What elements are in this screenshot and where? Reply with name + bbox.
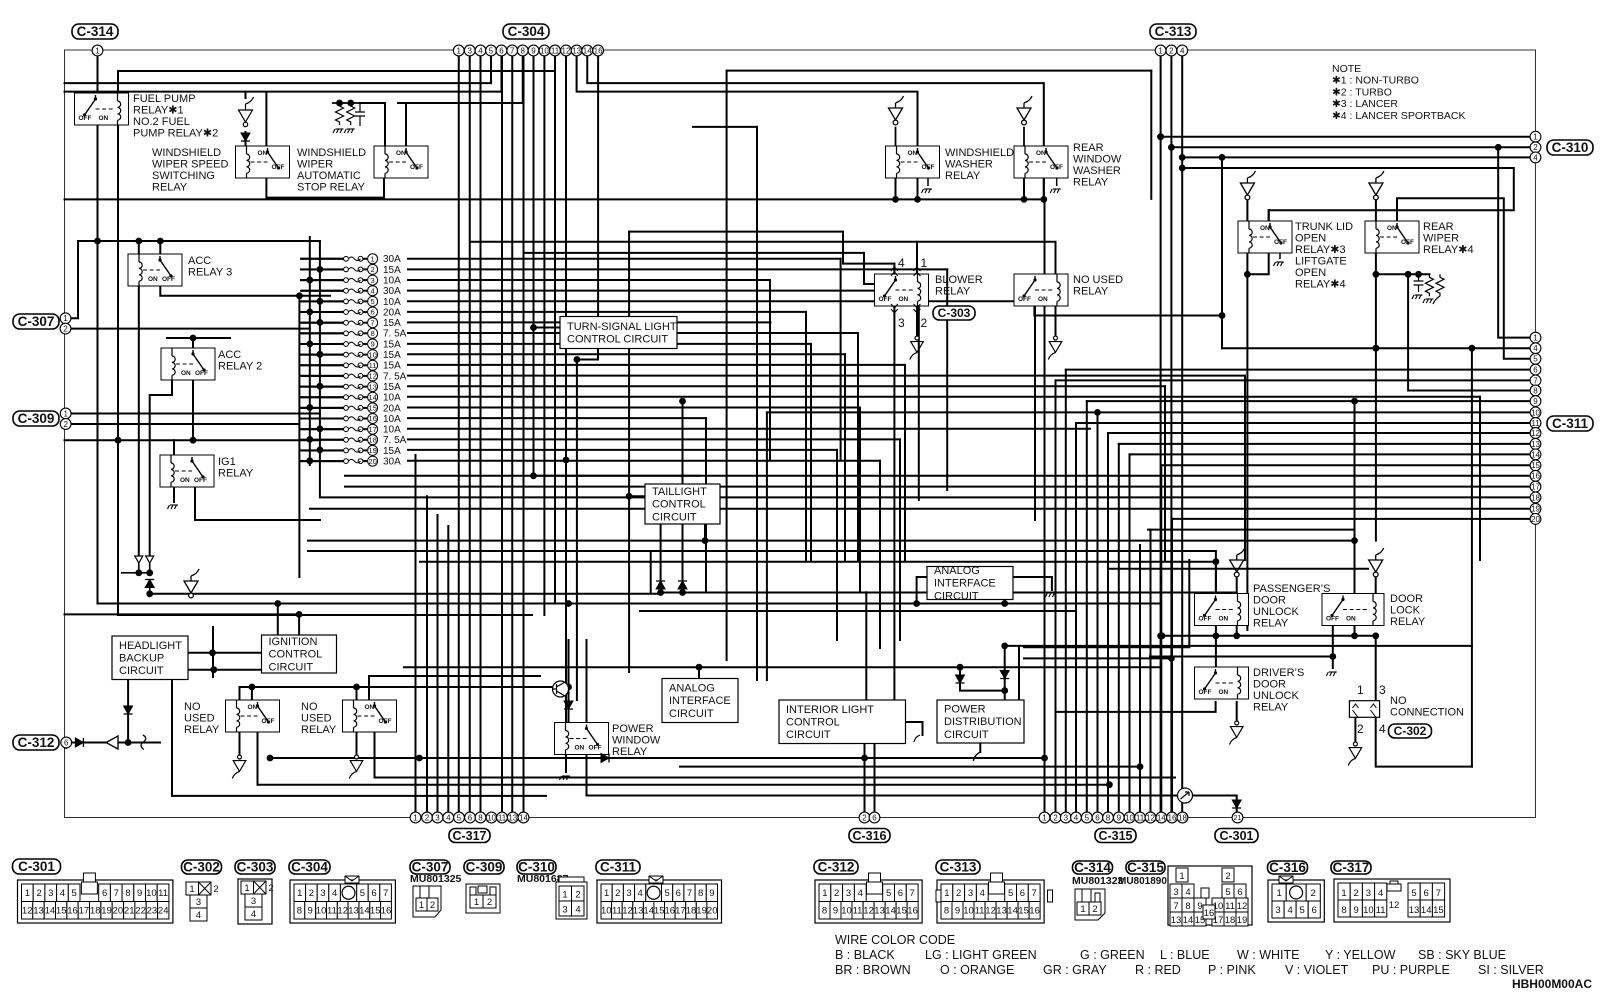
svg-text:5: 5: [1300, 905, 1305, 916]
svg-text:OFF: OFF: [1274, 239, 1287, 246]
svg-text:13: 13: [874, 906, 885, 917]
svg-text:20: 20: [707, 906, 718, 917]
svg-text:12: 12: [22, 906, 33, 917]
svg-text:11: 11: [853, 906, 863, 917]
wire: [946, 269, 948, 490]
connector label C-307: [410, 860, 450, 875]
wire: [1075, 423, 1077, 812]
svg-text:ON: ON: [1387, 225, 1397, 232]
svg-text:11: 11: [1376, 905, 1386, 916]
junction: [267, 755, 274, 762]
junction: [679, 398, 686, 405]
junction: [1040, 196, 1047, 203]
svg-text:12: 12: [1237, 901, 1248, 912]
svg-text:OFF: OFF: [589, 745, 602, 752]
wire: [302, 418, 344, 420]
svg-text:18: 18: [90, 906, 101, 917]
wire: [1107, 433, 1109, 812]
wire: [899, 439, 901, 640]
svg-text:C-309: C-309: [466, 860, 503, 875]
wire: [769, 280, 771, 460]
svg-text:10: 10: [963, 906, 974, 917]
fuse 16 : 10A: [300, 414, 401, 425]
svg-text:1: 1: [1080, 904, 1085, 915]
junction: [1168, 655, 1175, 662]
svg-text:15: 15: [56, 906, 67, 917]
connector label C-309: [13, 411, 59, 426]
svg-text:19: 19: [101, 906, 112, 917]
relay driver door unlock relay: [1195, 667, 1249, 699]
svg-text:3: 3: [1366, 888, 1371, 899]
junction: [306, 457, 313, 464]
chassis ground: [1045, 593, 1056, 597]
svg-text:1: 1: [1158, 46, 1163, 55]
svg-text:ON: ON: [575, 745, 585, 752]
svg-text:MU801323: MU801323: [1072, 875, 1124, 887]
junction: [1351, 632, 1358, 639]
svg-text:OFF: OFF: [922, 164, 935, 171]
wire: [1354, 627, 1356, 636]
svg-text:8: 8: [822, 906, 827, 917]
svg-text:6: 6: [1312, 905, 1317, 916]
svg-text:3: 3: [320, 888, 325, 899]
wire: [1004, 598, 1006, 604]
junction: [1159, 632, 1166, 639]
wire: [1130, 453, 1531, 455]
svg-text:2: 2: [1169, 46, 1174, 55]
connector label C-302: [1389, 724, 1432, 738]
wire: [906, 722, 923, 735]
svg-text:3: 3: [1173, 887, 1178, 898]
wire: [1139, 545, 1141, 812]
svg-text:4: 4: [251, 909, 256, 920]
wire: [470, 242, 1056, 274]
svg-text:1: 1: [189, 884, 194, 895]
wire: [150, 593, 661, 595]
svg-text:1: 1: [1042, 813, 1047, 822]
junction: [317, 447, 324, 454]
svg-text:11: 11: [498, 813, 507, 822]
junction: [1233, 632, 1240, 639]
wire: [408, 364, 905, 366]
connector pinout C-315: [1168, 866, 1252, 926]
svg-text:11: 11: [327, 906, 337, 917]
C-312 pin 6: [61, 737, 72, 748]
svg-text:14: 14: [1183, 915, 1194, 926]
svg-text:4: 4: [1379, 722, 1386, 736]
wire: [298, 296, 300, 577]
svg-text:OFF: OFF: [194, 477, 207, 484]
wire: [71, 328, 310, 330]
svg-text:10A: 10A: [383, 414, 401, 425]
interior light control circuit box: [779, 700, 906, 744]
svg-text:ON: ON: [908, 150, 918, 157]
wire: [258, 732, 1110, 785]
svg-text:13: 13: [368, 382, 376, 391]
fuse 7 : 15A: [300, 318, 401, 329]
connector pinout C-314: [1075, 889, 1105, 920]
wire: [71, 423, 299, 425]
connector label C-304: [503, 24, 549, 39]
junction: [530, 472, 537, 479]
svg-text:12: 12: [985, 906, 996, 917]
fuse 18 : 7. 5A: [300, 435, 407, 446]
relay IG1 relay: [160, 455, 214, 487]
wire: [766, 412, 768, 680]
svg-text:9: 9: [1354, 905, 1359, 916]
wire: [1055, 380, 1057, 812]
ground: [1230, 721, 1244, 745]
svg-text:20: 20: [113, 906, 124, 917]
connector pinout C-316: [1268, 880, 1324, 922]
junction: [1094, 409, 1101, 416]
connector label C-313: [1150, 24, 1196, 39]
wire: [1044, 199, 1046, 812]
wire: [408, 343, 811, 345]
wire: [360, 103, 385, 146]
wire: [767, 411, 1531, 413]
svg-text:2: 2: [63, 420, 68, 429]
svg-text:16: 16: [1204, 908, 1215, 919]
svg-text:17: 17: [1531, 483, 1540, 492]
wire: [173, 440, 175, 455]
wire: [1056, 379, 1531, 381]
svg-text:8: 8: [944, 906, 949, 917]
svg-text:3: 3: [898, 316, 905, 330]
svg-text:C-301: C-301: [1219, 829, 1253, 843]
junction: [1219, 312, 1226, 319]
svg-text:7. 5A: 7. 5A: [383, 371, 407, 382]
wire: [1376, 717, 1472, 766]
wire: [501, 56, 503, 812]
svg-text:TURN-SIGNAL LIGHTCONTROL CIRCU: TURN-SIGNAL LIGHTCONTROL CIRCUIT: [567, 321, 677, 346]
svg-text:16: 16: [1168, 813, 1177, 822]
chassis ground: [560, 776, 571, 780]
chassis ground: [1423, 299, 1434, 303]
connector label C-316: [1268, 860, 1308, 875]
junction: [94, 238, 101, 245]
wire: [629, 495, 645, 497]
svg-text:10: 10: [487, 813, 496, 822]
svg-text:8: 8: [297, 906, 302, 917]
junction: [1001, 600, 1008, 607]
wire: [836, 450, 838, 640]
relay rear wiper relay: [1365, 221, 1419, 253]
wire: [661, 592, 1237, 594]
svg-text:5: 5: [72, 888, 77, 899]
wire: [682, 524, 684, 584]
svg-text:C-302: C-302: [1394, 724, 1427, 738]
wire: [71, 413, 320, 415]
svg-text:10: 10: [1363, 905, 1374, 916]
svg-text:C-307: C-307: [18, 314, 55, 329]
wire: [97, 56, 99, 99]
wire: [408, 417, 706, 419]
connector label C-304: [289, 860, 330, 875]
wire: [523, 56, 525, 812]
svg-text:9: 9: [1117, 813, 1122, 822]
svg-text:4: 4: [980, 888, 985, 899]
svg-text:OFF: OFF: [162, 276, 175, 283]
svg-text:WIRE COLOR CODE: WIRE COLOR CODE: [835, 933, 955, 947]
diode: [678, 581, 687, 589]
svg-text:C-316: C-316: [1269, 860, 1306, 875]
svg-text:19: 19: [1237, 915, 1248, 926]
wire: [879, 461, 881, 648]
svg-text:C-314: C-314: [77, 24, 114, 39]
wire: [408, 279, 770, 281]
relay power window relay: [555, 723, 609, 755]
svg-text:15: 15: [654, 906, 665, 917]
svg-text:8: 8: [521, 46, 526, 55]
svg-text:11: 11: [975, 906, 985, 917]
svg-text:C-302: C-302: [183, 860, 220, 875]
svg-text:16: 16: [907, 906, 918, 917]
wire: [918, 291, 920, 500]
wire: [917, 178, 919, 199]
wire: [1236, 702, 1238, 722]
svg-text:12: 12: [337, 906, 348, 917]
svg-text:1: 1: [944, 888, 949, 899]
wire: [1354, 717, 1356, 742]
svg-text:1: 1: [1276, 888, 1281, 899]
svg-text:10A: 10A: [383, 297, 401, 308]
connector label C-315: [1095, 829, 1136, 843]
connector pinout C-307: [413, 886, 441, 917]
relay blower relay: [875, 274, 929, 306]
wire: [1086, 401, 1088, 812]
wire: [1066, 369, 1531, 371]
wire: [1118, 444, 1120, 812]
svg-text:11: 11: [612, 906, 622, 917]
wire: [1148, 529, 1355, 531]
svg-text:10A: 10A: [383, 425, 401, 436]
connector pinout C-303: [238, 879, 274, 924]
connector pinout C-310: [556, 877, 587, 919]
svg-text:OFF: OFF: [1199, 689, 1212, 696]
wire: [1246, 198, 1248, 222]
svg-text:9: 9: [833, 906, 838, 917]
svg-text:C-311: C-311: [1552, 416, 1589, 431]
wire: [408, 311, 806, 313]
svg-text:1: 1: [474, 897, 479, 908]
svg-text:2: 2: [1357, 722, 1364, 736]
wire: [1024, 560, 1189, 647]
chassis ground: [344, 129, 355, 133]
junction: [913, 600, 920, 607]
C-317 pins: [410, 812, 421, 823]
wire: [1171, 519, 1173, 812]
svg-text:1: 1: [1179, 871, 1184, 882]
svg-text:2: 2: [1053, 813, 1058, 822]
svg-text:6: 6: [1237, 887, 1242, 898]
svg-text:11: 11: [1225, 901, 1235, 912]
relay door lock relay: [1322, 594, 1384, 626]
svg-text:13: 13: [508, 813, 517, 822]
svg-text:6: 6: [1020, 888, 1025, 899]
svg-text:7: 7: [1173, 901, 1178, 912]
svg-text:C-313: C-313: [940, 860, 977, 875]
svg-text:4: 4: [478, 46, 483, 55]
wire: [568, 709, 570, 723]
junction: [1021, 196, 1028, 203]
wire: [212, 627, 214, 677]
wire: [188, 669, 262, 671]
wire: [640, 610, 1076, 612]
wire: [369, 676, 540, 700]
relay rear window washer relay: [1014, 146, 1068, 178]
wire: [1215, 636, 1217, 667]
connector label C-310: [517, 860, 556, 875]
svg-text:OFF: OFF: [1401, 239, 1414, 246]
svg-text:3: 3: [1064, 813, 1069, 822]
svg-text:3: 3: [1275, 905, 1280, 916]
wire: [1397, 198, 1531, 358]
wire: [1173, 518, 1531, 520]
wire: [1182, 168, 1514, 221]
svg-text:OFF: OFF: [1018, 296, 1031, 303]
svg-text:7: 7: [1032, 888, 1037, 899]
wire: [302, 343, 344, 345]
connector label C-302: [182, 860, 222, 875]
svg-text:7: 7: [1533, 376, 1538, 385]
wire: [705, 418, 707, 592]
svg-text:5: 5: [1008, 888, 1013, 899]
wire: [1018, 646, 1020, 701]
wire: [893, 264, 895, 274]
svg-text:13: 13: [1531, 440, 1540, 449]
wire: [408, 332, 858, 334]
wire: [188, 652, 262, 654]
svg-text:21: 21: [124, 906, 135, 917]
ground: [1048, 336, 1062, 360]
svg-text:TRUNK LIDOPENRELAY✱3LIFTGATEOP: TRUNK LIDOPENRELAY✱3LIFTGATEOPENRELAY✱4: [1295, 221, 1353, 291]
wire: [1244, 376, 1246, 560]
svg-text:18: 18: [686, 906, 697, 917]
relay no used relay (left): [226, 700, 280, 732]
svg-text:15: 15: [368, 404, 376, 413]
svg-text:ON: ON: [99, 115, 109, 122]
svg-text:6: 6: [468, 813, 473, 822]
svg-text:3: 3: [1379, 683, 1386, 697]
wire: [420, 562, 1216, 594]
svg-text:OFF: OFF: [1050, 164, 1063, 171]
wire: [408, 460, 880, 462]
svg-text:9: 9: [137, 888, 142, 899]
wire: [660, 524, 662, 584]
svg-text:6: 6: [64, 738, 69, 747]
svg-text:2: 2: [309, 888, 314, 899]
wire: [239, 732, 241, 757]
svg-text:1: 1: [370, 255, 374, 264]
branch symbol: [1240, 171, 1255, 200]
svg-text:10: 10: [1125, 813, 1134, 822]
wire: [511, 56, 513, 812]
svg-text:15A: 15A: [383, 350, 401, 361]
wire: [1408, 274, 1530, 390]
wire: [959, 667, 961, 675]
wire: [319, 241, 321, 497]
wire: [1236, 575, 1238, 594]
svg-text:1: 1: [1533, 133, 1538, 142]
connector label C-312: [814, 860, 858, 875]
C-315 pins: [1039, 812, 1050, 823]
wire: [302, 439, 344, 441]
wire: [1171, 146, 1530, 148]
wire: [302, 300, 344, 302]
svg-text:8: 8: [478, 813, 483, 822]
connector label C-317: [1331, 860, 1371, 875]
connector label C-307: [13, 314, 59, 329]
wire: [302, 428, 344, 430]
junction: [306, 309, 313, 316]
junction: [157, 238, 164, 245]
fuse 14 : 10A: [300, 392, 401, 403]
wire: [1471, 348, 1473, 766]
svg-text:10: 10: [316, 906, 327, 917]
wire: [1375, 253, 1377, 541]
wire: [415, 455, 417, 812]
svg-text:7: 7: [510, 46, 515, 55]
svg-text:14: 14: [1157, 813, 1166, 822]
svg-text:OFF: OFF: [272, 164, 285, 171]
svg-text:15A: 15A: [383, 446, 401, 457]
svg-text:12: 12: [562, 46, 571, 55]
svg-text:4: 4: [1378, 888, 1383, 899]
junction: [957, 664, 964, 671]
junction: [565, 684, 572, 691]
wire: [1247, 253, 1268, 274]
svg-text:19: 19: [1531, 505, 1540, 514]
svg-text:12: 12: [368, 372, 376, 381]
svg-text:14: 14: [885, 906, 896, 917]
svg-text:5: 5: [360, 888, 365, 899]
junction: [1372, 632, 1379, 639]
svg-text:12: 12: [1389, 900, 1400, 911]
svg-text:2: 2: [1225, 871, 1230, 882]
wire: [375, 732, 1176, 778]
wire: [408, 385, 1165, 387]
svg-text:1: 1: [1357, 683, 1364, 697]
svg-text:24: 24: [158, 906, 169, 917]
relay passenger door unlock relay: [1195, 594, 1249, 626]
wire: [704, 524, 706, 541]
wire: [859, 408, 861, 593]
wire: [568, 640, 570, 701]
svg-text:13: 13: [633, 906, 644, 917]
connector label C-301: [13, 859, 61, 874]
wire: [1023, 178, 1025, 199]
svg-text:2: 2: [834, 888, 839, 899]
svg-text:ON: ON: [365, 704, 375, 711]
svg-text:2: 2: [956, 888, 961, 899]
svg-text:ON: ON: [258, 150, 268, 157]
wire: [587, 755, 1237, 813]
svg-text:18: 18: [1531, 493, 1540, 502]
connector pinout C-302: [186, 882, 219, 921]
svg-text:C-315: C-315: [1098, 829, 1132, 843]
taillight control circuit box: [645, 484, 720, 524]
junction: [696, 664, 703, 671]
svg-text:15: 15: [370, 906, 381, 917]
svg-text:3: 3: [468, 46, 473, 55]
svg-text:C-316: C-316: [852, 829, 886, 843]
svg-text:10: 10: [1531, 408, 1540, 417]
junction: [1415, 271, 1422, 278]
svg-text:14: 14: [1007, 906, 1018, 917]
svg-text:20: 20: [1531, 515, 1540, 524]
svg-text:5: 5: [489, 46, 494, 55]
